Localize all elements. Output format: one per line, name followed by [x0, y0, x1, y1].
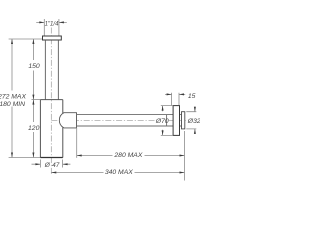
svg-text:1"1/4: 1"1/4 — [45, 21, 59, 27]
svg-text:120: 120 — [28, 125, 40, 132]
dimension 280 MAX — [76, 128, 78, 158]
cap of inlet pipe — [43, 36, 62, 40]
svg-text:280 MAX: 280 MAX — [113, 152, 142, 159]
svg-text:Ø70: Ø70 — [155, 118, 169, 125]
dimension Ø32 — [186, 112, 196, 129]
dimension 150 line — [32, 39, 34, 100]
svg-text:Ø: Ø — [44, 162, 51, 169]
dimension 120 line — [32, 100, 34, 158]
tube joint line — [166, 115, 168, 126]
wall flange (rosette) — [173, 106, 179, 136]
svg-text:180 MIN: 180 MIN — [0, 101, 25, 108]
extension line bottom (body bottom extended left) — [9, 157, 41, 159]
dimension 272 MAX / 180 MIN line — [11, 39, 13, 158]
extension line at body top (left) — [32, 99, 41, 101]
dimension Ø47 — [32, 163, 71, 165]
extension line right (wall end) — [184, 131, 186, 181]
union nut at outlet — [59, 113, 76, 128]
svg-text:47: 47 — [52, 162, 60, 169]
dimension Ø70 — [161, 106, 173, 136]
inlet pipe walls — [45, 40, 58, 100]
trap body bottom — [40, 157, 62, 159]
vertical centerline of trap — [50, 28, 52, 176]
svg-text:15: 15 — [188, 93, 196, 100]
dimension 1"1/4 arrows and extension lines — [36, 21, 67, 23]
extension line top (cap top extended left) — [9, 38, 43, 40]
svg-text:272 MAX: 272 MAX — [0, 94, 26, 101]
wall pipe stub Ø32 — [182, 112, 185, 129]
svg-text:Ø32: Ø32 — [187, 118, 200, 125]
horizontal centerline of outlet tube — [51, 119, 187, 121]
dimension 340 MAX — [51, 172, 184, 174]
trap body — [40, 100, 62, 158]
dimension 15 — [165, 93, 185, 95]
svg-text:340 MAX: 340 MAX — [105, 169, 133, 176]
svg-text:150: 150 — [28, 63, 40, 70]
outlet tube walls — [77, 115, 182, 126]
